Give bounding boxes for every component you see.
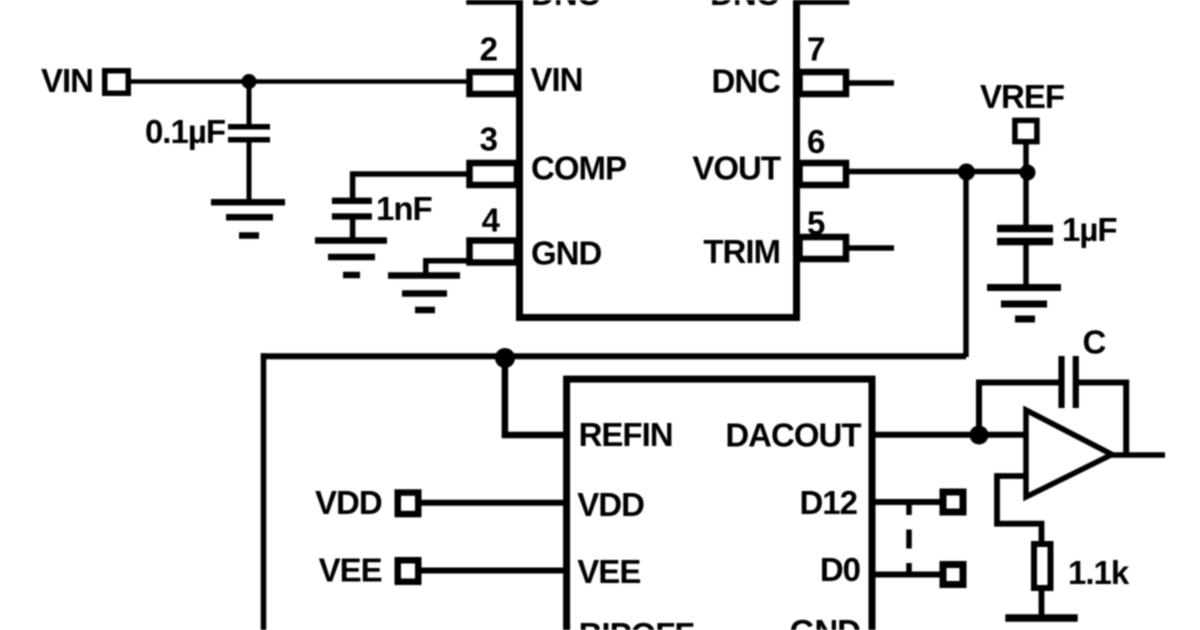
pin 6 box	[800, 163, 847, 185]
wire resistor to ground	[1039, 589, 1045, 618]
IC U3 DAC body (bottom cropped)	[567, 379, 872, 630]
svg-text:VIN: VIN	[41, 62, 93, 99]
svg-text:6: 6	[807, 123, 825, 160]
svg-text:5: 5	[807, 205, 825, 242]
svg-text:VEE: VEE	[319, 552, 382, 589]
feedback wire up and over to cap C	[979, 383, 1059, 436]
svg-text:GND: GND	[531, 235, 602, 272]
svg-text:REFIN: REFIN	[579, 416, 673, 453]
ground symbol below resistor (cropped)	[1005, 614, 1077, 622]
dashed bus line between D12 and D0	[906, 505, 912, 573]
op-amp inverting input wire	[997, 476, 1042, 545]
pin 5 box	[800, 237, 847, 259]
svg-text:VDD: VDD	[315, 484, 382, 521]
pin 1 box (DNC, cropped at top)	[470, 0, 518, 2]
wire C2 to ground	[350, 218, 356, 238]
svg-text:DACOUT: DACOUT	[725, 416, 861, 453]
wire VOUT pin 6 to VREF node	[846, 169, 1029, 175]
svg-text:VDD: VDD	[577, 486, 644, 523]
junction node on REFIN rail	[495, 348, 515, 368]
wire VIN to pin 2	[128, 79, 469, 84]
svg-text:1µF: 1µF	[1062, 211, 1117, 248]
svg-text:TRIM: TRIM	[703, 233, 780, 270]
wire VEE to DAC	[418, 568, 566, 574]
wire junction down to C1	[247, 82, 252, 126]
svg-text:1.1k: 1.1k	[1068, 554, 1130, 591]
svg-text:VEE: VEE	[577, 553, 640, 590]
svg-text:0.1µF: 0.1µF	[145, 113, 225, 150]
svg-text:D0: D0	[820, 551, 860, 588]
wire DACOUT to op-amp	[871, 432, 1026, 438]
junction node at VREF	[1020, 165, 1036, 181]
wire pin 4 to ground	[426, 261, 469, 273]
svg-text:DNC: DNC	[712, 63, 781, 100]
wire junction down to REFIN pin	[505, 357, 566, 436]
D0 terminal square	[943, 565, 963, 585]
wire 1nF cap to pin 3	[353, 174, 469, 199]
svg-text:GND: GND	[790, 613, 861, 630]
svg-text:D12: D12	[799, 484, 857, 521]
svg-text:4: 4	[482, 202, 501, 239]
capacitor C1 plates	[228, 127, 270, 140]
ground symbol below C3	[987, 288, 1061, 320]
wire C1 to ground	[247, 142, 252, 200]
pin 3 box	[470, 163, 518, 185]
wire VDD to DAC	[418, 500, 566, 506]
junction node DACOUT	[970, 426, 989, 445]
ground symbol below C1	[211, 202, 285, 235]
left rail vertical wire	[261, 353, 267, 630]
IC U1 body (8-pin reference IC, top cropped)	[520, 0, 797, 318]
op-amp U2 triangle	[1026, 410, 1112, 497]
ground symbol below C2	[315, 241, 387, 276]
op-amp output wire	[1108, 452, 1165, 458]
svg-text:DNC: DNC	[531, 0, 600, 12]
ground symbol below pin 4	[388, 276, 460, 311]
VDD terminal square	[398, 493, 419, 515]
svg-text:VREF: VREF	[980, 78, 1064, 115]
capacitor C3 plates	[997, 229, 1053, 242]
pin 7 stub wire	[846, 80, 894, 86]
wire D0 to terminal	[873, 572, 943, 578]
wire C3 to ground	[1023, 244, 1029, 285]
VREF terminal square	[1015, 120, 1037, 141]
feedback wire from cap to output	[1076, 383, 1126, 456]
capacitor C plates	[1062, 356, 1076, 408]
svg-text:VIN: VIN	[531, 61, 583, 98]
junction node VIN/C1	[242, 74, 257, 89]
pin 2 box	[470, 72, 518, 94]
svg-text:BIPOFF: BIPOFF	[579, 616, 694, 630]
pin 4 box	[470, 241, 518, 263]
pin 7 box	[800, 72, 847, 94]
wire D12 to terminal	[873, 499, 943, 505]
wire VREF down to C3	[1023, 142, 1029, 226]
VEE terminal square	[398, 560, 419, 582]
VIN terminal square	[105, 71, 129, 94]
junction node on VOUT wire	[958, 164, 975, 181]
svg-text:3: 3	[480, 121, 498, 158]
REFIN rail horizontal wire	[261, 353, 966, 359]
pin 8 box (DNC, cropped at top)	[800, 0, 847, 2]
capacitor C2 plates	[332, 201, 372, 217]
svg-text:C: C	[1083, 324, 1106, 361]
D12 terminal square	[943, 492, 963, 512]
resistor R1 1.1k body	[1034, 544, 1051, 588]
svg-text:7: 7	[807, 31, 824, 68]
svg-text:DNC: DNC	[710, 0, 779, 12]
svg-text:2: 2	[480, 31, 498, 68]
svg-text:VOUT: VOUT	[692, 150, 781, 187]
svg-text:1nF: 1nF	[376, 190, 432, 227]
pin 5 stub wire	[846, 245, 894, 251]
svg-text:COMP: COMP	[531, 150, 626, 187]
wire VOUT junction down to REFIN rail	[963, 172, 969, 358]
